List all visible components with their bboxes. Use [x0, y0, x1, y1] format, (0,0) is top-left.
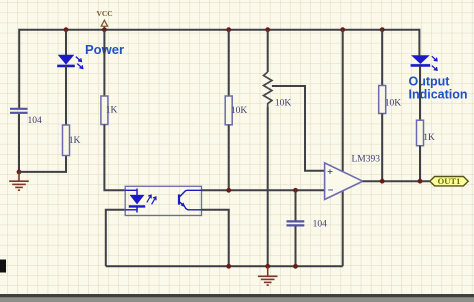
wire bus to R3: [228, 30, 230, 96]
power symbol VCC: [96, 9, 112, 30]
wire C2 bottom to ground rail: [295, 226, 297, 266]
node bus-opamp V+ junction: [340, 27, 345, 32]
svg-text:10K: 10K: [385, 99, 402, 109]
wire RP1 wiper to comparator non-inverting input: [272, 86, 325, 171]
node D2-output junction: [418, 179, 423, 184]
LED D1 Power: [57, 55, 83, 69]
screen artifact bottom gray strip: [0, 297, 474, 302]
ground symbol middle: [258, 266, 278, 285]
capacitor C2 104: [287, 221, 305, 225]
resistor R1 1K: [101, 96, 108, 125]
node R4-output junction: [380, 179, 385, 184]
wire top VCC bus: [19, 29, 419, 31]
node pot-ground junction: [265, 264, 270, 269]
svg-text:104: 104: [28, 116, 43, 126]
screen artifact black square left edge: [0, 260, 6, 273]
svg-text:104: 104: [313, 220, 328, 230]
screen artifact bottom dark bar: [0, 294, 474, 297]
wire bus to potentiometer RP1: [267, 30, 269, 72]
svg-text:10K: 10K: [275, 98, 292, 108]
wire bus to R4: [381, 30, 383, 86]
wire opamp output: [363, 180, 431, 182]
wire left rail down from bus: [18, 29, 20, 109]
resistor R4 10K: [379, 86, 386, 114]
node bus-R4 junction: [380, 27, 385, 32]
optocoupler U2 internal LED: [125, 189, 145, 213]
wire R5 to output node: [419, 146, 421, 182]
LED D2 Output: [411, 55, 437, 70]
port OUT1: [430, 176, 468, 186]
node emitter-ground junction: [226, 264, 231, 269]
svg-text:1K: 1K: [423, 133, 435, 143]
node bus-RP1 junction: [265, 27, 270, 32]
wire C1 bottom to ground node: [18, 114, 20, 172]
node bus-VCC junction: [102, 27, 107, 32]
wire R3 to collector node: [228, 125, 230, 191]
wire optocoupler emitter to ground rail: [202, 210, 229, 266]
resistor R2 1K: [63, 125, 70, 156]
svg-text:+: +: [327, 166, 333, 177]
wire opamp V+ power pin: [342, 30, 344, 172]
wire bottom ground rail: [106, 265, 343, 267]
svg-text:−: −: [328, 185, 334, 196]
wire optocoupler collector to comparator inverting input: [202, 189, 325, 191]
label Output Indication: [409, 75, 468, 102]
resistor R3 10K: [225, 96, 232, 125]
op-amp U1 LM393: [325, 163, 363, 200]
capacitor C1 104: [10, 109, 28, 113]
wire bus corner to LED D2: [418, 30, 419, 56]
potentiometer RP1 10K zigzag: [264, 72, 272, 107]
wire bus to LED D1: [65, 30, 67, 55]
optocoupler U2 phototransistor: [179, 190, 202, 210]
svg-text:1K: 1K: [69, 136, 81, 146]
svg-text:1K: 1K: [106, 106, 118, 116]
wire ground node to R2 bottom: [19, 156, 66, 172]
optocoupler U2 box: [125, 186, 201, 215]
wire bus to R1: [103, 30, 105, 96]
svg-text:LM393: LM393: [352, 155, 381, 165]
svg-text:Output: Output: [409, 75, 451, 89]
wire junction to C2: [295, 190, 297, 221]
node cap-ground junction: [293, 264, 298, 269]
wire R1 to optocoupler anode pin: [104, 125, 125, 191]
node collector junction: [226, 188, 231, 193]
svg-text:10K: 10K: [231, 106, 248, 116]
wire R4 to output node: [381, 114, 383, 182]
node bus-D1 junction: [64, 27, 69, 32]
node ground-left junction: [17, 170, 22, 175]
svg-text:Indication: Indication: [409, 88, 468, 102]
resistor R5 1K: [417, 120, 424, 146]
wire D2 to R5: [419, 66, 421, 120]
svg-text:VCC: VCC: [96, 9, 112, 18]
node cap C2 top junction: [293, 188, 298, 193]
wire D1 to R2: [65, 66, 67, 125]
node bus-R3 junction: [226, 27, 231, 32]
wire optocoupler cathode pin to ground rail: [106, 210, 125, 266]
ground symbol left: [9, 172, 29, 190]
svg-text:OUT1: OUT1: [438, 176, 461, 186]
optocoupler U2 light arrows: [147, 195, 156, 204]
wire RP1 bottom to ground rail: [267, 107, 269, 266]
wire opamp V- power pin to ground rail: [342, 191, 344, 266]
